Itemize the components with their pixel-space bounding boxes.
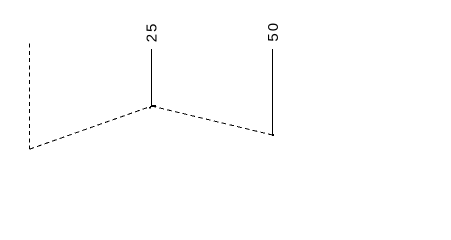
junction: thick dash at vertex <box>151 105 156 107</box>
wire: solid tick line at 25 <box>151 49 153 106</box>
junction: last dash pixels left of vertex <box>149 107 151 108</box>
svg-text:50: 50 <box>265 21 282 42</box>
wire: solid tick line at 50 <box>272 49 274 134</box>
junction: hook at bottom of tick line 50 <box>272 134 274 136</box>
svg-text:25: 25 <box>143 22 160 43</box>
wire: dashed left vertical edge <box>29 44 31 149</box>
wire: dashed bottom-left edge up to vertex <box>30 106 152 149</box>
wire: dashed bottom-right edge from vertex <box>152 106 274 135</box>
